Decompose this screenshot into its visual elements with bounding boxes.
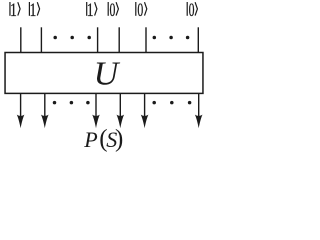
- ket label |1> input 2: [29, 0, 39, 20]
- svg-text:1: 1: [10, 0, 17, 20]
- unitary box U: [5, 53, 203, 94]
- ket label |1> input 3: [87, 0, 97, 20]
- output arrow 1: [17, 94, 25, 128]
- ket label |0> input 6: [187, 0, 197, 20]
- output arrow 4: [117, 94, 125, 128]
- svg-text:1: 1: [87, 0, 94, 20]
- ket label |0> input 4: [108, 0, 118, 20]
- ellipsis dots top left: [53, 36, 90, 40]
- svg-text:0: 0: [189, 0, 195, 20]
- wire input 5: [145, 27, 147, 52]
- label P(S): [83, 126, 123, 153]
- wire input 2: [40, 27, 42, 52]
- svg-text:0: 0: [137, 0, 143, 20]
- wire input 1: [20, 27, 22, 52]
- ket label |1> input 1: [10, 0, 20, 20]
- svg-text:0: 0: [109, 0, 115, 20]
- ellipsis dots bottom left: [53, 101, 90, 105]
- wire input 3: [97, 27, 99, 52]
- output arrow 2: [41, 94, 49, 128]
- svg-text:1: 1: [29, 0, 36, 20]
- ellipsis dots bottom right: [152, 101, 191, 105]
- output arrow 3: [92, 94, 100, 128]
- svg-text:P: P: [83, 127, 97, 152]
- wire input 6: [197, 27, 199, 52]
- output arrow 5: [141, 94, 149, 128]
- ket label |0> input 5: [136, 0, 147, 20]
- svg-text:U: U: [94, 55, 121, 92]
- wire input 4: [118, 27, 120, 52]
- svg-text:): ): [115, 126, 123, 153]
- output arrow 6: [195, 94, 203, 128]
- ellipsis dots top right: [153, 36, 190, 40]
